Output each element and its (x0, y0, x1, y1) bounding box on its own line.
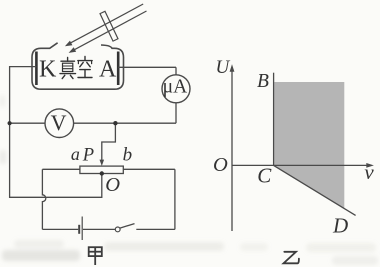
svg-text:C: C (257, 163, 272, 187)
svg-text:V: V (51, 110, 67, 135)
svg-text:ν: ν (364, 160, 374, 184)
svg-text:O: O (213, 154, 228, 176)
svg-text:K: K (39, 57, 57, 83)
svg-text:b: b (123, 144, 133, 165)
svg-text:O: O (105, 174, 120, 196)
svg-text:B: B (257, 71, 269, 92)
svg-text:a: a (71, 144, 80, 164)
svg-text:P: P (82, 145, 94, 165)
svg-text:A: A (99, 57, 117, 83)
svg-text:U: U (216, 57, 231, 78)
svg-text:μA: μA (163, 77, 188, 98)
svg-text:D: D (332, 213, 348, 237)
